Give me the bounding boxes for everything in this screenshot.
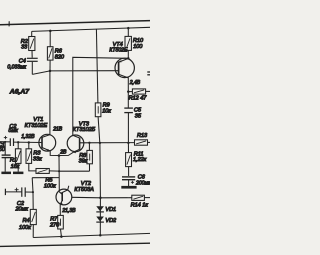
resistor R9 xyxy=(95,103,101,117)
diode VD2 xyxy=(96,217,104,222)
wire: diode chain xyxy=(99,143,102,235)
node: VT4 collector / R12 junction xyxy=(127,90,130,93)
diode VD1 xyxy=(96,206,104,211)
svg-text:270: 270 xyxy=(49,222,60,228)
svg-text:16к: 16к xyxy=(11,164,20,170)
svg-text:1,32В: 1,32В xyxy=(21,134,35,140)
node: R9/VD junction xyxy=(99,142,101,144)
wire: input lead xyxy=(0,141,10,143)
resistor R10 xyxy=(127,28,129,36)
svg-text:КТ502Е: КТ502Е xyxy=(109,48,128,54)
capacitor C1 xyxy=(4,141,6,143)
transistor VT4 xyxy=(115,58,134,77)
wire: R9 bottom to base-node line xyxy=(98,117,100,143)
svg-text:21,3В: 21,3В xyxy=(61,208,76,214)
transistor VT3 (mirrored) xyxy=(67,135,84,152)
svg-text:10к: 10к xyxy=(102,109,111,115)
capacitor C4 xyxy=(27,57,38,59)
wire: VT2 collector line to R14 xyxy=(72,196,132,199)
resistor R6 xyxy=(49,31,51,47)
svg-text:100: 100 xyxy=(133,44,143,50)
node: collector/R6/C4 junction xyxy=(49,70,52,73)
wire: VT1 base line xyxy=(14,141,43,143)
wire: VT1 collector node line (C4 - R6 - VT4 base) xyxy=(32,71,118,75)
capacitor C2 xyxy=(9,138,11,146)
node: VD/rail junction xyxy=(99,234,102,237)
transistor VT2 xyxy=(56,189,72,205)
svg-text:1,22к: 1,22к xyxy=(133,157,147,163)
resistor R8 xyxy=(88,143,90,151)
wire: R5-R8 line xyxy=(59,170,89,172)
node: R7/rail junction xyxy=(60,235,63,238)
plus sign C2 xyxy=(4,137,7,139)
svg-text:2,4В: 2,4В xyxy=(129,80,141,86)
tick on top rule xyxy=(8,21,10,26)
node: VT4 emitter / R10 junction xyxy=(127,57,130,60)
wire: node down to VT2 base xyxy=(58,156,60,192)
svg-text:100к: 100к xyxy=(44,184,56,190)
node: rail/R6 junction xyxy=(49,30,52,33)
page frame top rule xyxy=(0,21,150,25)
wire: C3/R4 branch line xyxy=(32,177,59,179)
svg-text:КТ503А: КТ503А xyxy=(74,187,94,193)
resistor R7 xyxy=(58,215,64,229)
transistor VT1 xyxy=(39,134,56,151)
node: VD/R14/VT2 junction xyxy=(99,197,102,200)
svg-text:20мк: 20мк xyxy=(15,206,29,212)
resistor R4 xyxy=(32,178,33,210)
resistor R11 xyxy=(127,143,129,153)
resistor R5 xyxy=(36,169,49,174)
svg-text:КТ3102Е: КТ3102Е xyxy=(25,123,48,129)
resistor R1 xyxy=(17,142,19,149)
equals mark at right margin xyxy=(147,71,150,73)
plus sign C6 xyxy=(131,181,134,183)
svg-text:R12 47: R12 47 xyxy=(129,96,148,102)
svg-text:820: 820 xyxy=(55,55,65,61)
resistor R2 xyxy=(31,31,33,36)
svg-text:0,033мк: 0,033мк xyxy=(7,64,26,70)
svg-text:21В: 21В xyxy=(52,126,63,132)
wire: rail to R9 xyxy=(96,29,98,103)
svg-text:R14 1к: R14 1к xyxy=(131,202,149,208)
wire: bottom rail xyxy=(33,233,150,237)
capacitor C3 xyxy=(4,189,6,195)
page frame bottom rule xyxy=(0,243,150,246)
svg-text:А6,А7: А6,А7 xyxy=(9,88,30,95)
node: rail/R10 junction xyxy=(127,27,130,30)
ground under C1 xyxy=(1,172,11,175)
resistor R3 xyxy=(28,143,30,149)
capacitor C6 xyxy=(122,176,135,178)
wire: VT3 collector to VT4 emitter node xyxy=(73,57,129,135)
node: R1 top xyxy=(17,141,19,143)
svg-text:VD2: VD2 xyxy=(105,218,117,224)
ground under C6 xyxy=(121,186,136,189)
resistor R13 xyxy=(135,140,148,145)
node: R3 top xyxy=(28,141,30,143)
capacitor C5 xyxy=(127,92,129,108)
node: R8 top junction xyxy=(88,142,90,144)
svg-text:35: 35 xyxy=(135,114,142,120)
svg-text:100к: 100к xyxy=(19,225,31,231)
node: emitters junction xyxy=(58,154,61,157)
ground under R1 xyxy=(13,172,23,175)
wire: VT3 base node line xyxy=(80,142,135,144)
svg-text:R13: R13 xyxy=(137,133,148,139)
svg-text:33: 33 xyxy=(21,44,28,50)
svg-text:R1: R1 xyxy=(10,158,17,164)
svg-text:VD1: VD1 xyxy=(105,207,116,213)
svg-text:КТ3102Б: КТ3102Б xyxy=(73,127,96,133)
wire: +supply top rail xyxy=(32,27,150,31)
node: R5/R8 junction xyxy=(58,170,60,172)
svg-text:2В: 2В xyxy=(59,149,67,155)
node: C5/R11/R13 junction xyxy=(127,142,129,144)
svg-text:200мк: 200мк xyxy=(135,180,150,186)
svg-text:5мк: 5мк xyxy=(8,128,18,134)
svg-text:39к: 39к xyxy=(79,159,88,165)
svg-text:33к: 33к xyxy=(33,157,42,163)
resistor R14 xyxy=(132,195,145,200)
plus sign C3 xyxy=(15,189,19,191)
node: C3/R4 junction xyxy=(32,191,34,193)
svg-text:R4: R4 xyxy=(23,218,30,224)
resistor R12 xyxy=(128,91,132,93)
